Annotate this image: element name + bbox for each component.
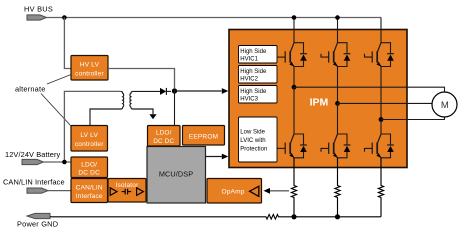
node CAN/LIN Interface label — [3, 178, 65, 187]
svg-text:High Side: High Side — [240, 69, 267, 75]
svg-text:HVIC2: HVIC2 — [240, 77, 258, 83]
transistor Q1 (high side) — [285, 43, 307, 67]
svg-text:DC DC: DC DC — [78, 170, 100, 177]
svg-text:OpAmp: OpAmp — [221, 189, 244, 196]
svg-text:LDO/: LDO/ — [81, 161, 97, 168]
wire shunt sense to OpAmp — [264, 188, 290, 194]
wire phase node to Q4 collector — [293, 87, 295, 134]
block High Side HVIC1 — [239, 46, 278, 64]
resistor Rs1 shunt — [291, 158, 296, 217]
wire callout alternate to HV LV controller — [47, 75, 71, 85]
wire gate stub Q2 — [321, 54, 329, 57]
svg-text:CAN/LIN: CAN/LIN — [76, 184, 103, 191]
wire phase node to Q6 collector — [380, 120, 382, 135]
node HV BUS label — [24, 5, 53, 14]
connector CAN/LIN — [27, 188, 48, 193]
node alternate label — [15, 85, 46, 94]
wire Q1 emitter to phase node — [293, 67, 295, 88]
wire phase node to Q5 collector — [337, 103, 339, 134]
wire V phase output — [338, 102, 433, 104]
connector Power GND — [27, 213, 50, 218]
svg-text:LVIC with: LVIC with — [240, 138, 265, 144]
junction DC node — [172, 88, 177, 93]
wire LVIC to Q4 gate — [277, 147, 285, 149]
wire DC node to IPM with arrow — [175, 88, 229, 94]
svg-text:Isolator: Isolator — [116, 182, 140, 189]
wire alternate supply vertical — [64, 91, 120, 162]
node 12V/24V Battery label — [5, 150, 61, 159]
transistor Q5 (low side) — [329, 134, 351, 158]
junction HV bus column 1 — [292, 15, 297, 20]
block LV LV controller — [71, 126, 108, 152]
wire HV bus drop to column 2 — [337, 18, 339, 43]
svg-text:MCU/DSP: MCU/DSP — [159, 170, 193, 179]
MCU/DSP U1 — [147, 147, 206, 204]
svg-text:Power GND: Power GND — [17, 220, 58, 229]
node Power GND label — [17, 220, 58, 229]
svg-text:Protection: Protection — [240, 147, 267, 153]
svg-text:DC DC: DC DC — [153, 138, 174, 145]
node W phase junction — [379, 117, 384, 122]
wire Q2 emitter to phase node — [337, 67, 339, 104]
block LDO DC-DC converter (battery) — [71, 157, 108, 178]
block HV LV controller — [71, 56, 108, 81]
wire HV LV controller output — [108, 69, 175, 89]
svg-text:HVIC3: HVIC3 — [240, 97, 258, 103]
svg-text:Low Side: Low Side — [240, 130, 265, 136]
wire HV bus drop to column 1 — [293, 18, 295, 43]
wire W phase output — [381, 117, 445, 120]
node V phase junction — [335, 101, 340, 106]
transformer T1 primary winding — [90, 91, 124, 125]
svg-text:alternate: alternate — [15, 85, 46, 94]
transistor Q3 (high side) — [372, 43, 394, 67]
wire callout alternate to LV LV controller — [41, 94, 71, 127]
svg-text:12V/24V Battery: 12V/24V Battery — [5, 150, 61, 159]
IPM module box — [229, 30, 407, 168]
block Isolator — [108, 179, 146, 203]
wire HV bus horizontal — [47, 17, 382, 19]
transistor Q2 (high side) — [329, 43, 351, 67]
transformer T1 secondary winding — [130, 91, 153, 114]
svg-text:EEPROM: EEPROM — [189, 134, 218, 141]
svg-text:High Side: High Side — [240, 89, 267, 95]
svg-text:controller: controller — [75, 71, 104, 78]
wire gate stub Q5 — [321, 148, 329, 151]
op-amp U2 — [207, 179, 262, 204]
block Low Side LVIC with Protection — [239, 117, 278, 162]
wire U phase output — [294, 87, 445, 92]
memory EEPROM — [183, 126, 225, 146]
svg-text:LDO/: LDO/ — [156, 130, 172, 137]
svg-text:M: M — [441, 100, 449, 111]
svg-text:Interface: Interface — [76, 193, 103, 200]
wire power ground rail — [50, 215, 381, 220]
svg-text:controller: controller — [75, 141, 104, 148]
wire MCU to IPM gate signals — [206, 154, 229, 160]
svg-text:High Side: High Side — [240, 49, 267, 55]
svg-text:CAN/LIN Interface: CAN/LIN Interface — [3, 178, 65, 187]
wire Q3 emitter to phase node — [380, 67, 382, 120]
node U phase junction — [292, 85, 297, 90]
wire gate stub Q3 — [365, 54, 373, 57]
wire HVIC1 to Q1 gate — [277, 56, 285, 58]
connector HV BUS — [27, 15, 47, 20]
svg-text:HV BUS: HV BUS — [24, 5, 53, 14]
resistor Rs3 shunt — [378, 158, 383, 217]
wire DC node to LDO DC-DC — [174, 91, 176, 126]
diode D1 — [160, 88, 171, 95]
wire HV bus to HV LV controller — [64, 18, 71, 69]
transistor Q4 (low side) — [285, 134, 307, 158]
resistor Rs2 shunt — [335, 158, 340, 217]
motor M1 — [432, 92, 457, 117]
junction ground column 1 — [291, 214, 296, 219]
junction ground column 2 — [335, 214, 340, 219]
svg-text:HVIC1: HVIC1 — [240, 57, 258, 63]
ground — [149, 114, 156, 119]
block High Side HVIC3 — [239, 86, 278, 104]
block CAN/LIN Interface — [71, 179, 108, 203]
junction battery / alternate — [62, 160, 67, 165]
wire gate stub Q6 — [365, 148, 373, 151]
svg-text:IPM: IPM — [310, 97, 329, 109]
connector 12V/24V Battery — [22, 159, 44, 164]
svg-text:HV LV: HV LV — [80, 62, 100, 69]
svg-text:LV LV: LV LV — [80, 132, 98, 139]
wire CAN/LIN to interface block — [48, 190, 71, 192]
block LDO DC-DC (HV side) — [148, 126, 181, 147]
transistor Q6 (low side) — [372, 134, 394, 158]
wire secondary top to diode — [133, 90, 160, 92]
wire battery to LDO — [44, 161, 72, 163]
junction HV bus column 2 — [335, 15, 340, 20]
block High Side HVIC2 — [239, 66, 278, 84]
junction HV bus / HVLV tap — [62, 15, 67, 20]
wire HV bus drop to column 3 — [380, 18, 382, 43]
